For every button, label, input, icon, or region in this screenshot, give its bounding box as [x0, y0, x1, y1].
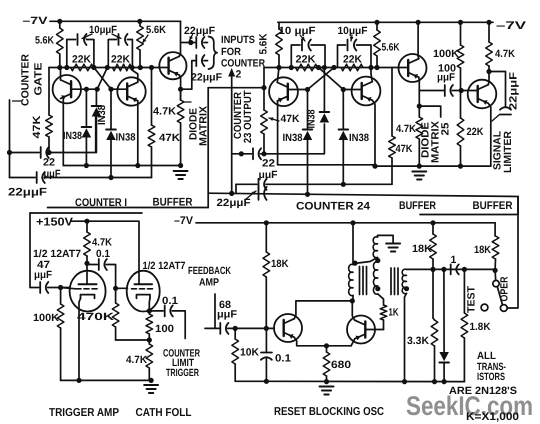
node 470K R20 top	[113, 286, 118, 291]
node Q9 collector / primary	[350, 298, 355, 303]
transformer T2 output winding	[402, 269, 406, 293]
wire Q1 emitter	[62, 99, 64, 166]
counter gate input column + 47K R5	[48, 68, 50, 116]
svg-text:0.1: 0.1	[162, 295, 178, 307]
svg-text:COUNTER 24: COUNTER 24	[296, 201, 371, 213]
input line left	[9, 100, 11, 178]
node Q2 base / diode D3	[108, 87, 113, 92]
emitter line counter 1	[63, 165, 180, 167]
wire Q9 collector	[352, 301, 354, 320]
wire divider top to 47K R8 feed	[208, 87, 264, 89]
capacitor C17 68uuF	[205, 327, 219, 329]
vacuum tube V2 1/2 12AT7 cath foll	[127, 271, 160, 312]
emitter line counter 24	[278, 164, 375, 166]
svg-text:μμF: μμF	[259, 169, 279, 181]
capacitor C13 22uuF output	[500, 107, 511, 110]
wire output winding top	[407, 268, 434, 270]
svg-text:+150V: +150V	[36, 217, 73, 229]
svg-text:22μμF: 22μμF	[184, 25, 216, 37]
svg-text:TRIGGER AMP: TRIGGER AMP	[49, 407, 119, 419]
resistor R27 1K	[383, 301, 385, 305]
node Q5 base/D6	[341, 87, 346, 92]
node R30 bottom	[432, 379, 437, 384]
ground buffer 1	[174, 170, 188, 172]
node R15 bottom	[417, 164, 422, 169]
leader arrow C7	[246, 191, 256, 199]
trigger amp bottom line	[61, 379, 152, 381]
wire rail to buffer Q6 collector	[416, 20, 421, 25]
node cathode/output cap	[147, 308, 152, 313]
node 1.8K R29 top	[462, 267, 467, 272]
capacitor C11 22uuF counter24 low	[258, 179, 260, 190]
power rail -7V (counter 1)	[50, 20, 181, 22]
node plate V1 / C15	[84, 261, 89, 266]
node C12/divider	[459, 88, 464, 93]
feedback amp pointer	[214, 294, 216, 328]
svg-text:1/2 12AT7: 1/2 12AT7	[143, 260, 186, 272]
divider counter1/counter24	[207, 88, 209, 208]
node 680 bottom / ground	[324, 379, 329, 384]
speed-up capacitor C2 10uuF loop	[108, 40, 116, 68]
leader arrow C9	[300, 35, 305, 41]
brace upper cap lead	[204, 42, 208, 44]
svg-text:AMP: AMP	[199, 277, 219, 289]
node R25 bottom	[430, 267, 435, 272]
svg-text:47K: 47K	[396, 143, 413, 155]
cross-coupling wire B to Q1 base	[97, 68, 107, 90]
svg-text:23 OUTPUT: 23 OUTPUT	[242, 90, 254, 144]
svg-text:4.7K: 4.7K	[126, 354, 147, 366]
node emitter/4.7K R15	[417, 104, 422, 109]
wire R24 bottom line	[235, 380, 266, 382]
resistor R12 5.6K	[374, 20, 379, 25]
svg-text:FEEDBACK: FEEDBACK	[188, 265, 231, 277]
diode D3 1N38 column	[110, 89, 112, 129]
node input cap C3	[7, 150, 12, 155]
svg-text:IN38: IN38	[349, 132, 369, 144]
svg-text:–7V: –7V	[496, 20, 527, 32]
svg-text:100K: 100K	[433, 48, 459, 60]
node R8 bottom	[261, 151, 266, 156]
resistor R9 5.6K (corner from rail)	[278, 21, 279, 23]
speed-up capacitor C10 10uuF loop	[338, 45, 346, 68]
node R4 bottom	[138, 65, 143, 70]
V1 plate bar	[79, 283, 97, 285]
border top of trigger amp section	[30, 212, 142, 214]
svg-text:IN38: IN38	[63, 130, 82, 142]
svg-text:5.6K: 5.6K	[382, 42, 400, 54]
diode D2 1N38 column	[85, 89, 87, 127]
capacitor C18 0.1 emitter bypass	[265, 328, 267, 352]
node switch pole	[493, 268, 498, 273]
resistor R19 100K grid	[60, 288, 62, 305]
wire test line	[433, 268, 495, 270]
wire Q3 collector	[179, 54, 180, 57]
vacuum tube V1 1/2 12AT7 trigger amp	[70, 271, 106, 312]
wire Q3 emitter	[179, 75, 180, 100]
transformer T1 core	[360, 267, 367, 295]
resistor R2 22K left	[71, 64, 94, 71]
capacitor C3 22uuF input	[10, 152, 40, 154]
svg-text:IN38: IN38	[116, 132, 136, 144]
svg-text:18K: 18K	[474, 244, 491, 256]
wire Q5 emitter	[372, 100, 375, 166]
node rail/5.6K R1	[57, 19, 62, 24]
svg-text:–7V: –7V	[23, 15, 48, 27]
svg-text:22K: 22K	[111, 54, 130, 66]
node 4.7K R7 bottom / ground	[178, 163, 183, 168]
transistor Q9 blocking osc	[347, 316, 375, 344]
ground transformer	[386, 243, 400, 245]
blocking osc bottom line	[266, 380, 464, 382]
svg-text:22: 22	[262, 158, 275, 170]
wire output winding bottom	[405, 294, 407, 382]
node C3 right / R5 bottom	[46, 150, 51, 155]
resistor R30 3.3K	[432, 269, 434, 318]
speed-up capacitor C9 10uuF loop	[291, 45, 300, 68]
resistor R29 1.8K	[463, 269, 465, 313]
transformer T2 core	[391, 268, 398, 295]
switch OPER contact	[500, 305, 507, 312]
node grid/100K R19	[58, 285, 63, 290]
wire Q2 base	[111, 89, 127, 91]
svg-text:470K: 470K	[77, 311, 115, 323]
svg-text:25: 25	[440, 122, 452, 135]
leader dash signal limiter	[492, 115, 500, 122]
V2 cathode	[137, 295, 151, 299]
svg-text:IN38: IN38	[283, 132, 303, 144]
node D2 bottom	[84, 163, 89, 168]
ground trigger amp	[144, 384, 158, 386]
svg-text:22K: 22K	[296, 54, 316, 66]
capacitor C8 22uuF counter 23 out	[232, 153, 252, 155]
diode D5 1N38 column	[323, 68, 325, 113]
wire emitter line to right section	[375, 165, 491, 167]
node R16 bottom	[458, 164, 463, 169]
capacitor C12 100uuF	[444, 85, 446, 96]
node cross C	[316, 65, 321, 70]
node primary top	[352, 261, 357, 266]
transistor Q7 signal limiter	[468, 80, 497, 109]
cross-coupling wire C to Q5 base	[319, 68, 344, 90]
node cross A	[91, 65, 96, 70]
switch TEST contact	[481, 304, 488, 311]
diode D6 1N38 column	[342, 90, 344, 130]
wire Q9 emitter	[351, 339, 355, 346]
resistor R26 680	[326, 346, 328, 352]
svg-text:1.8K: 1.8K	[470, 321, 491, 333]
wire Q7 base	[468, 91, 478, 95]
svg-text:μμF: μμF	[34, 269, 53, 281]
wire Q5 collector	[371, 68, 372, 82]
wire base-collector line counter 1	[49, 67, 160, 69]
diode D7 column	[443, 269, 445, 352]
leader arrow C10	[351, 35, 352, 41]
cross-coupling wire D to Q4 base	[308, 68, 335, 90]
output tap lower 22uuF C6	[181, 61, 195, 90]
svg-text:22μμF: 22μμF	[8, 187, 47, 199]
node cap loop C1 left	[64, 65, 69, 70]
svg-text:18K: 18K	[412, 243, 432, 255]
node 10K R24 top	[233, 326, 238, 331]
node C5	[188, 40, 193, 45]
+150V rail	[71, 221, 139, 284]
cap C7 line to R13	[235, 184, 237, 193]
svg-text:1K: 1K	[389, 307, 399, 319]
cross-coupling wire A to Q2 base	[94, 68, 111, 90]
wire Q4 base	[288, 89, 308, 91]
node 18K R25 top	[430, 220, 435, 225]
transformer T1 primary winding	[352, 223, 354, 265]
node D7 bottom	[442, 379, 447, 384]
resistor R23 18K	[265, 223, 267, 252]
svg-text:COUNTER I: COUNTER I	[75, 197, 127, 209]
wire gate line counter 24	[264, 124, 324, 154]
node 470K/cathode column	[147, 337, 152, 342]
svg-text:18K: 18K	[271, 258, 289, 270]
speed-up capacitor C1 10uuF loop	[67, 40, 76, 68]
node Q5 emitter	[372, 164, 377, 169]
svg-text:22K: 22K	[467, 126, 484, 138]
wire Q6 emitter to 100uuF cap	[419, 90, 443, 92]
svg-text:TEST: TEST	[466, 285, 478, 313]
node R22 bottom / ground	[149, 378, 154, 383]
V1 grid dashes	[76, 288, 97, 290]
brace inputs for counter 2	[209, 37, 218, 70]
wire gate line to D1	[49, 117, 96, 153]
wire Q4 emitter	[277, 101, 279, 165]
node R6 top	[149, 65, 154, 70]
transistor Q5 (counter 24 right)	[352, 77, 381, 106]
capacitor C14 47uuF input	[30, 287, 39, 289]
resistor R22 4.7K cathode	[148, 340, 150, 344]
resistor R24 10K	[234, 328, 236, 339]
svg-text:47K: 47K	[159, 132, 180, 144]
node rail/4.7K R18	[84, 219, 89, 224]
capacitor C4 22uuF input 2	[10, 177, 36, 179]
resistor R3 22K right	[113, 64, 132, 71]
transistor Q2 (counter 1 right)	[117, 77, 145, 105]
capacitor C15 0.1 coupling	[87, 264, 97, 266]
node 18K R23 top	[264, 220, 269, 225]
resistor R17 4.7K limiter load	[486, 20, 491, 25]
transistor Q8 feedback amp	[274, 314, 302, 342]
svg-text:1/2 12AT7: 1/2 12AT7	[33, 248, 81, 260]
svg-text:100: 100	[155, 323, 174, 335]
resistor R14 100K column	[458, 20, 463, 25]
wire Q3 base	[160, 66, 169, 68]
svg-text:OPER: OPER	[499, 276, 511, 301]
svg-text:47K: 47K	[281, 113, 300, 125]
leader arrow to C2	[112, 34, 121, 39]
leader arrow 47K R8	[269, 118, 279, 121]
svg-text:LIMITER: LIMITER	[502, 131, 514, 173]
ground buffer 2	[412, 171, 426, 173]
svg-text:10 μμF: 10 μμF	[279, 25, 317, 37]
svg-text:5.6K: 5.6K	[35, 35, 54, 47]
svg-text:4.7K: 4.7K	[396, 123, 416, 135]
leader arrow to C1	[82, 34, 92, 39]
svg-text:0.1: 0.1	[96, 248, 110, 260]
node C9 left	[289, 65, 294, 70]
node D4 bottom	[305, 192, 310, 197]
svg-text:FOR: FOR	[221, 46, 241, 58]
transformer T1 top winding to ground	[378, 235, 394, 243]
resistor R13 47K counter 24	[391, 68, 393, 137]
svg-text:–7V: –7V	[174, 215, 194, 227]
svg-text:22K: 22K	[343, 54, 362, 66]
resistor R4 5.6K (collector load right)	[139, 21, 141, 26]
svg-text:10K: 10K	[240, 347, 259, 359]
svg-text:RESET BLOCKING OSC: RESET BLOCKING OSC	[274, 406, 384, 418]
resistor R10 22K	[296, 64, 318, 71]
node cross B	[105, 65, 110, 70]
wire OPER to right edge	[507, 197, 518, 309]
svg-text:ISTORS: ISTORS	[477, 371, 505, 383]
-7V line bottom	[196, 222, 495, 224]
node left collector	[57, 65, 62, 70]
transistor Q3 buffer 1	[159, 52, 186, 79]
wire Q8 emitter	[294, 337, 351, 346]
node diode D7 top	[441, 267, 446, 272]
wire R20 bottom to cathode column	[116, 339, 150, 341]
wire Q4 collector	[277, 68, 279, 83]
V2 cathode lead	[148, 298, 151, 311]
svg-text:IN38: IN38	[96, 105, 108, 125]
svg-text:IN38: IN38	[306, 109, 318, 128]
resistor R18 4.7K plate load	[86, 221, 88, 232]
V2 plate bar	[135, 283, 153, 285]
svg-text:μμF: μμF	[437, 72, 456, 84]
svg-text:TRIGGER: TRIGGER	[166, 367, 199, 379]
svg-text:100K: 100K	[33, 312, 59, 324]
node Q2 emitter	[135, 163, 140, 168]
wire Q2 emitter	[137, 101, 139, 166]
wire rail corner to buffer Q3 collector	[180, 21, 182, 53]
node D3 bottom	[108, 175, 113, 180]
svg-text:22: 22	[43, 157, 55, 169]
node R8 feed	[261, 85, 266, 90]
transistor Q4 (counter 24 left)	[269, 77, 298, 106]
svg-text:5.6K: 5.6K	[146, 24, 166, 36]
ground blocking osc	[320, 386, 334, 388]
svg-text:μμF: μμF	[217, 309, 238, 321]
node 18K column joins base line	[264, 326, 269, 331]
V1 grid lead	[61, 288, 76, 289]
box around BUFFER 3	[517, 197, 519, 215]
border line mid right	[208, 193, 518, 196]
leader arrow C5	[190, 35, 193, 41]
switch pole contact	[493, 280, 499, 286]
wire Q8 collector	[294, 301, 352, 319]
svg-text:BUFFER: BUFFER	[153, 197, 193, 209]
svg-text:GATE: GATE	[33, 63, 45, 96]
resistor R20 470K	[115, 288, 117, 303]
resistor R6 47K (emitter return)	[151, 68, 153, 126]
wire collector to output cap	[489, 72, 506, 107]
wire Q7 emitter	[488, 103, 491, 166]
svg-text:22μμF: 22μμF	[191, 72, 223, 84]
svg-text:COUNTER: COUNTER	[221, 58, 265, 70]
resistor R1 5.6K (collector load left)	[59, 21, 61, 28]
resistor R21 100 cathode	[148, 311, 150, 314]
svg-text:INPUTS: INPUTS	[221, 34, 255, 46]
input border left column	[29, 213, 31, 288]
svg-text:4.7K: 4.7K	[153, 106, 176, 118]
leader arrow 5.6K R4	[143, 35, 149, 43]
svg-text:4.7K: 4.7K	[92, 237, 112, 249]
node Q3 emitter tap	[178, 87, 183, 92]
svg-text:3.3K: 3.3K	[407, 335, 429, 347]
node feed/border	[229, 191, 234, 196]
svg-text:5.6K: 5.6K	[258, 33, 270, 54]
node R12 bottom	[374, 65, 379, 70]
wire Q5 base	[343, 90, 361, 92]
wire Q6 base	[392, 67, 408, 70]
diode D1 1N38 column	[95, 89, 97, 106]
node Q1 base / diode D2	[84, 87, 89, 92]
wire Q2 collector	[132, 68, 138, 83]
V1 cathode lead	[79, 298, 81, 380]
wire Q6 emitter	[418, 77, 421, 106]
node emitter/680 R26	[324, 343, 329, 348]
node V1 cathode bottom	[76, 378, 81, 383]
wire winding to 1K	[378, 294, 384, 301]
capacitor C16 0.1 output	[149, 310, 163, 312]
resistor R7 4.7K buffer emitter load	[180, 89, 182, 100]
svg-text:47K: 47K	[31, 115, 43, 138]
leader dash counter gate	[13, 100, 22, 102]
svg-text:BUFFER: BUFFER	[473, 200, 513, 212]
node Q1 base / diode D1	[95, 87, 100, 92]
node Q7 collector	[486, 69, 491, 74]
transistor Q1 (counter 1 left)	[53, 75, 81, 103]
svg-text:10μμF: 10μμF	[338, 25, 369, 37]
power rail -7V (counter 24)	[278, 21, 493, 23]
node transformer primary top	[350, 220, 355, 225]
transistor Q6 buffer 2	[399, 54, 427, 82]
node right collector	[129, 65, 134, 70]
node feedback winding tap	[375, 258, 380, 263]
box bottom counter 1	[48, 207, 209, 209]
feed line to counter 2 with arrow	[231, 75, 233, 193]
V2 grid dashes	[132, 288, 153, 290]
svg-text:680: 680	[331, 359, 351, 371]
output tap upper 22uuF C5	[181, 42, 195, 44]
node rail/R4	[137, 19, 142, 24]
capacitor C19 1	[450, 264, 452, 274]
node Q4 base/D4	[305, 87, 310, 92]
wire Q6 collector	[417, 56, 420, 59]
transformer T1 feedback winding	[373, 262, 377, 294]
diode matrix pointer	[419, 106, 440, 117]
node R9 bottom	[276, 65, 281, 70]
svg-text:1: 1	[451, 254, 457, 266]
capacitor C7 22uuF inter-counter	[258, 187, 260, 200]
wire Q1 collector	[60, 68, 62, 80]
svg-text:4.7K: 4.7K	[495, 48, 515, 60]
resistor R25 18K	[432, 223, 434, 234]
svg-text:K=X1,000: K=X1,000	[466, 411, 519, 423]
svg-text:BUFFER: BUFFER	[399, 200, 436, 212]
svg-text:22K: 22K	[72, 54, 91, 66]
resistor R15 4.7K buffer 2	[418, 106, 420, 117]
svg-text:0.1: 0.1	[275, 353, 291, 365]
V1 cathode	[81, 295, 95, 299]
switch arm to OPER	[497, 287, 502, 306]
wire Q9 base to 1K	[365, 329, 383, 331]
node cross D	[331, 65, 336, 70]
